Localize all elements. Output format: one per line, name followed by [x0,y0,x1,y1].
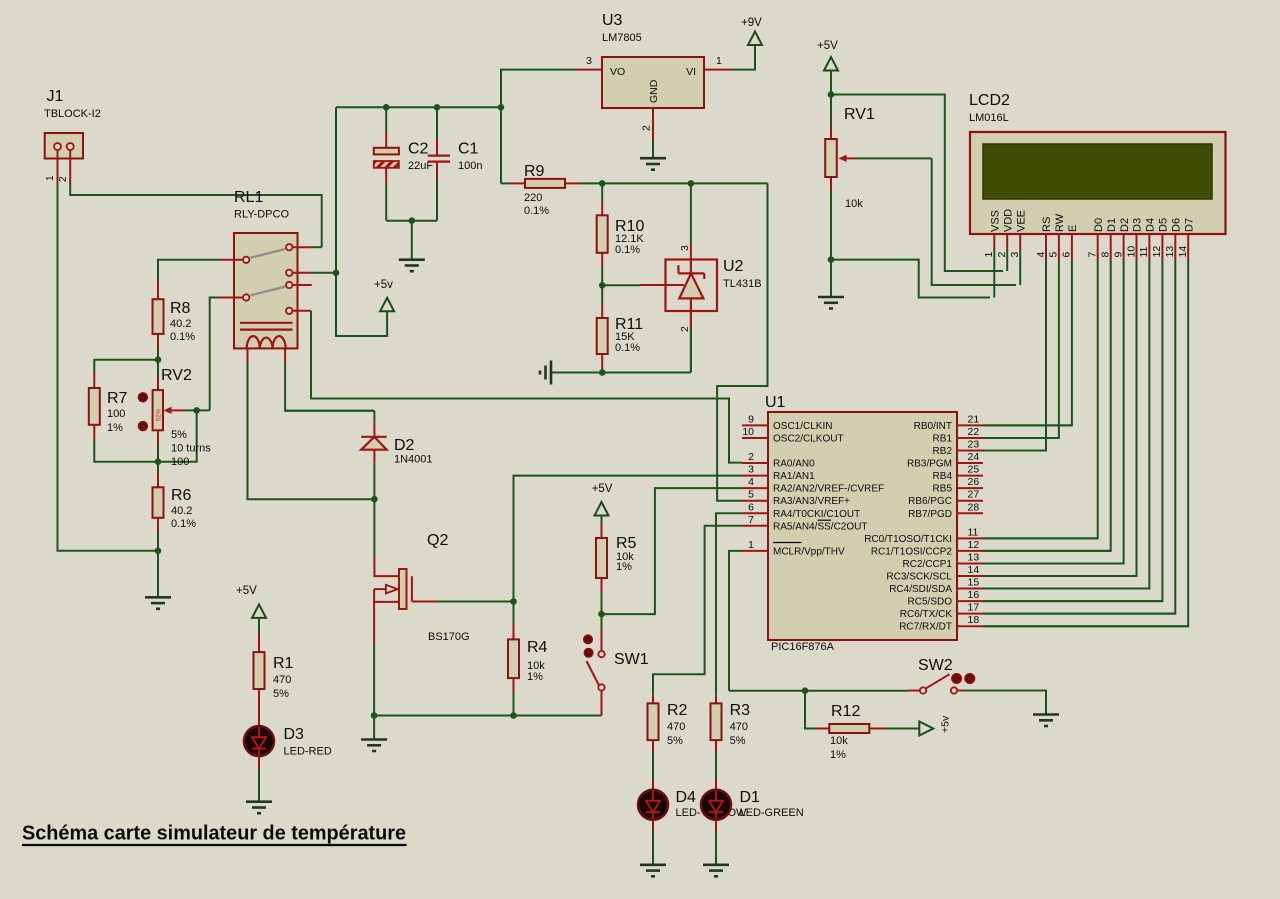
svg-text:R5: R5 [616,535,637,552]
svg-text:24: 24 [968,451,980,463]
svg-text:RB4: RB4 [933,471,953,482]
svg-text:VDD: VDD [1002,209,1014,232]
svg-text:RC5/SDO: RC5/SDO [908,597,953,608]
svg-text:VO: VO [610,66,625,78]
svg-text:5%: 5% [730,735,746,747]
svg-text:6: 6 [748,501,754,513]
svg-text:R2: R2 [667,702,688,719]
svg-text:VSS: VSS [990,210,1002,232]
svg-text:U1: U1 [765,394,786,411]
svg-text:5%: 5% [667,735,683,747]
svg-text:U2: U2 [723,258,744,275]
svg-text:LED-GREEN: LED-GREEN [740,807,804,819]
svg-text:0.1%: 0.1% [171,518,196,530]
svg-text:MCLR/Vpp/THV: MCLR/Vpp/THV [773,546,845,557]
svg-text:R7: R7 [107,390,128,407]
svg-text:3: 3 [586,55,592,67]
svg-text:J1: J1 [47,88,64,105]
svg-text:D6: D6 [1171,218,1183,232]
svg-text:15: 15 [968,577,980,589]
svg-text:RL1: RL1 [234,189,263,206]
svg-text:23: 23 [968,439,980,451]
svg-text:D1: D1 [740,789,761,806]
svg-text:+5V: +5V [817,40,838,52]
svg-text:SW2: SW2 [918,657,953,674]
svg-text:RB7/PGD: RB7/PGD [908,509,952,520]
svg-text:2: 2 [679,326,691,332]
svg-text:+5v: +5v [940,715,952,733]
svg-text:SW1: SW1 [614,651,649,668]
svg-text:D4: D4 [676,789,697,806]
svg-text:RC3/SCK/SCL: RC3/SCK/SCL [886,572,952,583]
svg-text:0.1%: 0.1% [170,331,195,343]
svg-text:17: 17 [968,602,980,614]
svg-text:RB3/PGM: RB3/PGM [907,459,952,470]
svg-text:OSC2/CLKOUT: OSC2/CLKOUT [773,433,844,444]
svg-text:22: 22 [968,426,980,438]
svg-text:27: 27 [968,489,980,501]
svg-text:10k: 10k [830,735,848,747]
svg-text:D3: D3 [1132,218,1144,232]
svg-text:1%: 1% [616,561,632,573]
svg-text:1N4001: 1N4001 [394,454,433,466]
svg-text:+5V: +5V [236,585,257,597]
svg-text:RW: RW [1054,213,1066,232]
svg-text:R12: R12 [831,703,860,720]
svg-text:R8: R8 [170,300,191,317]
svg-text:LCD2: LCD2 [969,92,1010,109]
svg-text:0.1%: 0.1% [615,342,640,354]
svg-text:10k: 10k [845,198,863,210]
svg-text:1: 1 [716,55,722,67]
svg-text:LED-RED: LED-RED [284,746,332,758]
svg-text:1%: 1% [107,422,123,434]
svg-text:VEE: VEE [1015,210,1027,232]
svg-text:2: 2 [58,176,69,182]
svg-text:28: 28 [968,501,980,513]
svg-text:10 turns: 10 turns [171,443,211,455]
svg-text:4: 4 [748,476,754,488]
svg-text:D3: D3 [284,726,305,743]
svg-text:13: 13 [1164,246,1176,258]
svg-text:E: E [1067,225,1079,232]
svg-text:470: 470 [667,721,685,733]
svg-text:RA3/AN3/VREF+: RA3/AN3/VREF+ [773,496,850,507]
svg-text:10: 10 [742,426,754,438]
svg-text:RB2: RB2 [933,446,953,457]
svg-text:100n: 100n [458,160,482,172]
svg-text:D5: D5 [1158,218,1170,232]
svg-text:5: 5 [1048,252,1060,258]
svg-text:LM7805: LM7805 [602,32,642,44]
svg-text:RC6/TX/CK: RC6/TX/CK [900,609,953,620]
svg-text:1%: 1% [527,671,543,683]
svg-text:40.2: 40.2 [170,318,191,330]
svg-text:470: 470 [273,674,291,686]
svg-text:TBLOCK-I2: TBLOCK-I2 [44,108,101,120]
svg-text:Schéma carte simulateur de tem: Schéma carte simulateur de température [22,823,406,845]
svg-text:VI: VI [686,66,696,78]
svg-text:14: 14 [968,564,980,576]
svg-text:C2: C2 [408,141,429,158]
svg-text:RC4/SDI/SDA: RC4/SDI/SDA [889,584,952,595]
svg-text:RLY-DPCO: RLY-DPCO [234,209,289,221]
svg-text:RC0/T1OSO/T1CKI: RC0/T1OSO/T1CKI [864,534,952,545]
svg-text:52%: 52% [155,408,162,421]
svg-text:RS: RS [1041,217,1053,232]
svg-text:1: 1 [748,539,754,551]
svg-text:2: 2 [748,451,754,463]
svg-text:RV2: RV2 [161,367,192,384]
svg-text:+5v: +5v [374,279,393,291]
svg-text:+9V: +9V [741,17,762,29]
svg-text:3: 3 [748,464,754,476]
svg-text:RC2/CCP1: RC2/CCP1 [903,559,953,570]
svg-text:LM016L: LM016L [969,112,1009,124]
svg-text:Q2: Q2 [427,532,448,549]
svg-text:470: 470 [730,721,748,733]
svg-text:26: 26 [968,476,980,488]
svg-text:220: 220 [524,192,542,204]
svg-text:21: 21 [968,413,980,425]
svg-text:D0: D0 [1093,218,1105,232]
svg-text:100: 100 [107,408,125,420]
svg-text:11: 11 [968,526,979,538]
svg-text:RC1/T1OSI/CCP2: RC1/T1OSI/CCP2 [871,546,953,557]
svg-text:BS170G: BS170G [428,631,470,643]
svg-text:D1: D1 [1106,218,1118,232]
svg-text:3: 3 [679,245,691,251]
svg-text:12: 12 [968,539,980,551]
svg-text:11: 11 [1138,246,1150,257]
svg-text:RB1: RB1 [933,433,953,444]
svg-text:RB5: RB5 [933,484,953,495]
svg-text:40.2: 40.2 [171,505,192,517]
svg-text:R3: R3 [730,702,751,719]
svg-text:D4: D4 [1145,218,1157,232]
svg-text:16: 16 [968,589,980,601]
svg-text:R6: R6 [171,487,192,504]
svg-text:RV1: RV1 [844,106,875,123]
svg-text:2: 2 [641,125,653,131]
svg-text:RB0/INT: RB0/INT [914,421,952,432]
svg-text:RA0/AN0: RA0/AN0 [773,459,815,470]
svg-text:D2: D2 [394,437,415,454]
svg-text:100: 100 [171,456,189,468]
svg-text:RC7/RX/DT: RC7/RX/DT [899,622,952,633]
svg-text:PIC16F876A: PIC16F876A [771,641,835,653]
svg-text:1: 1 [45,175,56,181]
svg-text:RA4/T0CKI/C1OUT: RA4/T0CKI/C1OUT [773,509,860,520]
svg-text:6: 6 [1061,252,1073,258]
svg-text:7: 7 [748,514,754,526]
svg-text:D2: D2 [1119,218,1131,232]
svg-text:R9: R9 [524,163,545,180]
svg-text:GND: GND [648,79,660,103]
svg-text:1%: 1% [830,749,846,761]
svg-text:RB6/PGC: RB6/PGC [908,496,952,507]
svg-text:RA2/AN2/VREF-/CVREF: RA2/AN2/VREF-/CVREF [773,484,884,495]
svg-text:13: 13 [968,551,980,563]
svg-text:R4: R4 [527,639,548,656]
svg-text:18: 18 [968,614,980,626]
svg-text:0.1%: 0.1% [524,205,549,217]
svg-text:D7: D7 [1183,218,1195,232]
svg-text:C1: C1 [458,141,479,158]
svg-text:9: 9 [748,413,754,425]
svg-text:R1: R1 [273,655,294,672]
svg-text:12: 12 [1151,246,1163,258]
svg-text:0.1%: 0.1% [615,244,640,256]
svg-text:5%: 5% [273,688,289,700]
svg-text:5: 5 [748,489,754,501]
svg-text:25: 25 [968,464,980,476]
svg-text:RA5/AN4/SS/C2OUT: RA5/AN4/SS/C2OUT [773,521,867,532]
svg-text:RA1/AN1: RA1/AN1 [773,471,815,482]
svg-text:OSC1/CLKIN: OSC1/CLKIN [773,421,832,432]
svg-text:+5V: +5V [592,483,613,495]
svg-text:TL431B: TL431B [723,278,762,290]
svg-text:5%: 5% [171,429,187,441]
svg-text:U3: U3 [602,12,623,29]
